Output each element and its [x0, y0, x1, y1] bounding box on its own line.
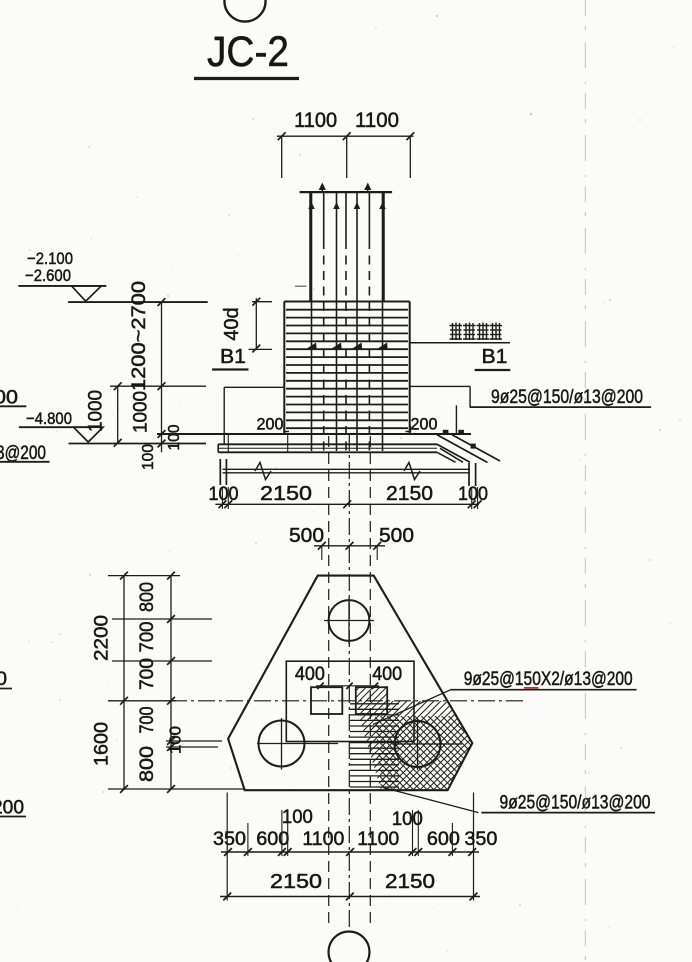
dim text 800 (top): [137, 582, 158, 612]
dimension text 1100 right: [355, 109, 399, 132]
dim text 2150 left (plan): [270, 870, 322, 893]
svg-text:−4.800: −4.800: [26, 409, 72, 428]
extension line left: [281, 136, 283, 178]
sloped footing edge hatch (section cut): [437, 435, 500, 463]
offset text 200 right: [406, 415, 438, 434]
svg-text:1000: 1000: [131, 391, 152, 433]
dim text 500 left: [289, 524, 324, 547]
svg-text:B1: B1: [220, 346, 246, 368]
cut label 200 bottom left edge: [0, 798, 26, 819]
column rebar dowel arrows above top: [319, 183, 372, 193]
svg-text:2150: 2150: [260, 482, 312, 505]
column left face: [309, 192, 311, 302]
svg-text:40d: 40d: [221, 307, 243, 340]
pedestal outline (short column): [284, 302, 409, 435]
left outer dimension line: [114, 382, 122, 446]
rebar tip arrows inside column: [308, 202, 386, 209]
svg-text:1100: 1100: [294, 109, 337, 132]
svg-text:400: 400: [295, 663, 325, 685]
dim text 2150 right (plan): [385, 870, 435, 893]
svg-text:1100: 1100: [355, 109, 399, 132]
svg-text:800: 800: [137, 746, 158, 782]
dimension text 1000 inner: [131, 391, 152, 433]
dimension text 1000 outer: [86, 390, 107, 432]
red correction mark: [524, 687, 539, 689]
svg-text:00: 00: [0, 388, 18, 409]
tick line y747: [166, 746, 218, 748]
vertical rebar line 2: [323, 192, 325, 451]
level symbol triangle lower: [74, 427, 104, 442]
svg-text:1600: 1600: [92, 722, 113, 766]
tick line y789: [108, 788, 244, 790]
svg-text:9ø25@150/ø13@200: 9ø25@150/ø13@200: [491, 386, 643, 408]
svg-text:2150: 2150: [270, 870, 322, 893]
vertical rebar line 5: [356, 192, 358, 451]
plan bottom extension right: [473, 793, 475, 901]
svg-text:600: 600: [256, 829, 289, 850]
svg-text:700: 700: [137, 707, 158, 734]
svg-text:2150: 2150: [385, 870, 435, 893]
vertical rebar line 1: [311, 192, 313, 451]
svg-text:1200~2700: 1200~2700: [129, 281, 150, 391]
rebar label 9d25@150X2/d13@200: [450, 669, 636, 690]
offset text 200 left: [257, 415, 290, 434]
footing plan outline (hexagon): [228, 576, 472, 791]
rebar label 9d25@150/d13@200 (bottom): [481, 793, 655, 814]
dim row 350/600/100/1100 texts: [213, 807, 344, 850]
section label B1 right: [475, 346, 511, 370]
svg-text:100: 100: [209, 483, 239, 505]
svg-text:800: 800: [137, 582, 158, 612]
level symbol triangle upper: [72, 286, 102, 301]
svg-text:2200: 2200: [92, 615, 113, 661]
svg-text:100: 100: [166, 424, 183, 450]
leader to bottom rebar: [383, 788, 479, 813]
dim text 700 (b): [137, 658, 158, 690]
rebar cut squares on footing top: [443, 430, 464, 435]
svg-text:JC-2: JC-2: [207, 28, 289, 76]
ground line at -2.600: [68, 301, 208, 303]
extension line centre: [346, 136, 348, 178]
slab band middle line: [218, 447, 437, 449]
svg-text:200: 200: [411, 415, 438, 434]
svg-text:100: 100: [168, 726, 185, 754]
svg-text:1100: 1100: [357, 829, 399, 850]
cross-hatched zone (pile region): [190, 655, 692, 795]
extension stubs row A: [222, 487, 477, 509]
dim text 2150 right: [386, 482, 433, 505]
dim text 2200: [92, 615, 113, 661]
plan centre line horizontal: [170, 700, 527, 702]
leader to hatch zone: [373, 690, 451, 725]
svg-text:3@200: 3@200: [0, 443, 46, 464]
dim text 500 right: [379, 524, 414, 547]
svg-text:350: 350: [213, 829, 246, 850]
pile circle top: [324, 598, 374, 645]
dimension line 40d: [249, 298, 273, 353]
svg-text:B1: B1: [482, 346, 508, 368]
level text -4.800: [26, 409, 72, 428]
dim line 400/400: [316, 683, 379, 689]
svg-text:0: 0: [0, 669, 7, 690]
bottom rebar lines in plan (horizontal): [350, 704, 399, 787]
column section square right: [356, 687, 387, 714]
svg-text:100: 100: [140, 444, 157, 470]
lower ground line: [69, 443, 207, 445]
dim text 700 (a): [137, 622, 158, 653]
vertical rebar line 7: [382, 192, 384, 451]
slab band top line: [218, 443, 437, 445]
svg-text:400: 400: [372, 663, 402, 685]
tick line y576: [108, 575, 180, 577]
section label B1 left: [212, 346, 248, 370]
pedestal stirrup lines: [286, 310, 408, 429]
tick line y386: [110, 385, 206, 387]
dimension line 1100/1100: [277, 132, 414, 140]
title text JC-2: [207, 28, 289, 76]
bottom rebar lines with hooks: [220, 459, 475, 486]
extension through band left: [227, 434, 229, 452]
svg-text:2150: 2150: [386, 482, 433, 505]
dim text 800 (bottom): [137, 746, 158, 782]
vertical rebar line 4: [345, 192, 347, 451]
slab band bottom line: [218, 444, 437, 452]
level line -4.800: [19, 426, 95, 428]
dim line row1: [221, 848, 479, 856]
pedestal label (Chinese: foundation short column) pseudo-glyphs: [450, 323, 503, 341]
dimension text 100 (row b): [140, 444, 157, 470]
svg-text:500: 500: [379, 524, 414, 547]
dim text 2150 left: [260, 482, 312, 505]
dim text 100 left: [209, 483, 239, 505]
footing top line: [157, 433, 471, 435]
cut label 0 at left edge: [0, 669, 12, 690]
right step leader to rebar label: [410, 386, 470, 434]
left inner dimension line: [158, 298, 166, 452]
tick line y661: [112, 660, 212, 662]
grid bubble bottom (cut): [329, 932, 370, 962]
row1 extension stubs: [248, 810, 453, 856]
tick line y619: [112, 618, 212, 620]
plan left inner dim line: [167, 572, 175, 793]
svg-text:700: 700: [137, 658, 158, 690]
dowel hooks at 40d anchorage: [307, 343, 388, 349]
vertical rebar line 3: [336, 192, 338, 451]
plan left outer dim line: [120, 572, 128, 793]
dim text 100 (plan): [168, 726, 185, 754]
plan bottom extension left: [226, 793, 228, 901]
svg-text:700: 700: [137, 622, 158, 653]
svg-text:350: 350: [464, 829, 497, 850]
break mark left: [255, 463, 271, 480]
svg-text:9ø25@150/ø13@200: 9ø25@150/ø13@200: [500, 793, 651, 814]
tick line y741: [166, 740, 222, 742]
extension line right: [409, 136, 411, 178]
svg-text:600: 600: [427, 829, 460, 850]
dim text 400 left: [295, 663, 325, 685]
level line -2.100: [18, 285, 106, 287]
svg-text:200: 200: [257, 415, 284, 434]
dim text 1600: [92, 722, 113, 766]
svg-text:1000: 1000: [86, 390, 107, 432]
title underline: [194, 77, 299, 80]
svg-text:500: 500: [289, 524, 324, 547]
building grid line (faint, right): [584, 0, 586, 962]
column right face: [383, 192, 385, 302]
dim text 400 right: [372, 663, 402, 685]
pile cap inner rectangle: [286, 661, 414, 741]
pile axis line right: [369, 436, 371, 928]
left step leader: [224, 387, 284, 444]
dimension text 1100 left: [294, 109, 337, 132]
cut label ...3@200 at left edge: [0, 443, 50, 464]
dim line 100/2150/2150/100: [215, 500, 481, 508]
dimension 40d text: [221, 307, 243, 340]
pile axis line left: [328, 436, 330, 928]
svg-text:9ø25@150X2/ø13@200: 9ø25@150X2/ø13@200: [464, 669, 633, 690]
break mark right: [404, 463, 420, 480]
stray dash of level line near column: [295, 285, 307, 287]
svg-text:200: 200: [0, 798, 24, 819]
pile circle right: [392, 719, 462, 771]
centre line (elevation+plan axis): [348, 434, 350, 931]
svg-text:−2.600: −2.600: [25, 266, 71, 285]
dim row 1100/100/600/350 texts: [357, 809, 497, 850]
svg-text:1100: 1100: [302, 829, 344, 850]
svg-text:100: 100: [282, 807, 313, 828]
dim text 700 (c): [137, 707, 158, 734]
pile circle left: [257, 718, 338, 770]
dimension text 100 (row a): [166, 424, 183, 450]
dim text 100 right: [458, 483, 488, 505]
svg-text:100: 100: [458, 483, 488, 505]
slab band end cap: [471, 444, 476, 449]
column section square left: [311, 687, 342, 714]
tick line y701: [108, 700, 176, 702]
rebar label 9d25@150/d13@200: [470, 386, 651, 408]
dimension text 1200~2700: [129, 281, 150, 391]
leader line to pedestal label: [410, 342, 510, 344]
dim line row2: [220, 893, 480, 901]
level text -2.100: [27, 249, 73, 268]
dim line 500/500: [314, 542, 385, 560]
column top line: [300, 191, 393, 193]
title circle (grid bubble, cut at top): [224, 0, 265, 22]
level text -2.600: [25, 266, 71, 285]
vertical rebar line 6: [368, 192, 370, 451]
cut label ...00 at left edge: [0, 388, 26, 409]
extension through band x287: [287, 434, 289, 452]
